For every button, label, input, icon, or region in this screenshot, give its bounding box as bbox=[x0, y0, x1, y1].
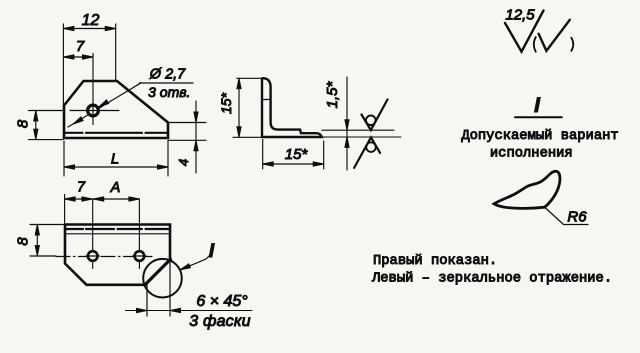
svg-text:4: 4 bbox=[176, 159, 191, 166]
svg-text:A: A bbox=[110, 180, 121, 196]
svg-text:Правый показан.: Правый показан. bbox=[373, 252, 497, 269]
svg-text:Допускаемый вариант: Допускаемый вариант bbox=[461, 127, 618, 144]
svg-text:15*: 15* bbox=[218, 92, 234, 114]
svg-text:I: I bbox=[534, 94, 541, 117]
svg-text:8: 8 bbox=[15, 237, 32, 246]
svg-text:R6: R6 bbox=[567, 209, 587, 226]
svg-text:12,5: 12,5 bbox=[505, 6, 535, 23]
svg-text:12: 12 bbox=[82, 12, 100, 29]
svg-text:7: 7 bbox=[77, 180, 86, 196]
svg-text:Ø 2,7: Ø 2,7 bbox=[149, 67, 186, 83]
svg-text:исполнения: исполнения bbox=[490, 147, 573, 162]
svg-text:3 фаски: 3 фаски bbox=[189, 313, 250, 330]
svg-text:8: 8 bbox=[15, 119, 32, 128]
svg-text:L: L bbox=[111, 151, 119, 168]
svg-text:15*: 15* bbox=[285, 146, 309, 163]
svg-text:7: 7 bbox=[76, 38, 85, 55]
svg-text:3 отв.: 3 отв. bbox=[148, 84, 190, 100]
svg-text:6 × 45°: 6 × 45° bbox=[196, 293, 248, 310]
svg-text:Левый – зеркальное отражение.: Левый – зеркальное отражение. bbox=[371, 270, 612, 287]
svg-text:1,5*: 1,5* bbox=[324, 80, 341, 108]
svg-text:I: I bbox=[209, 241, 215, 262]
